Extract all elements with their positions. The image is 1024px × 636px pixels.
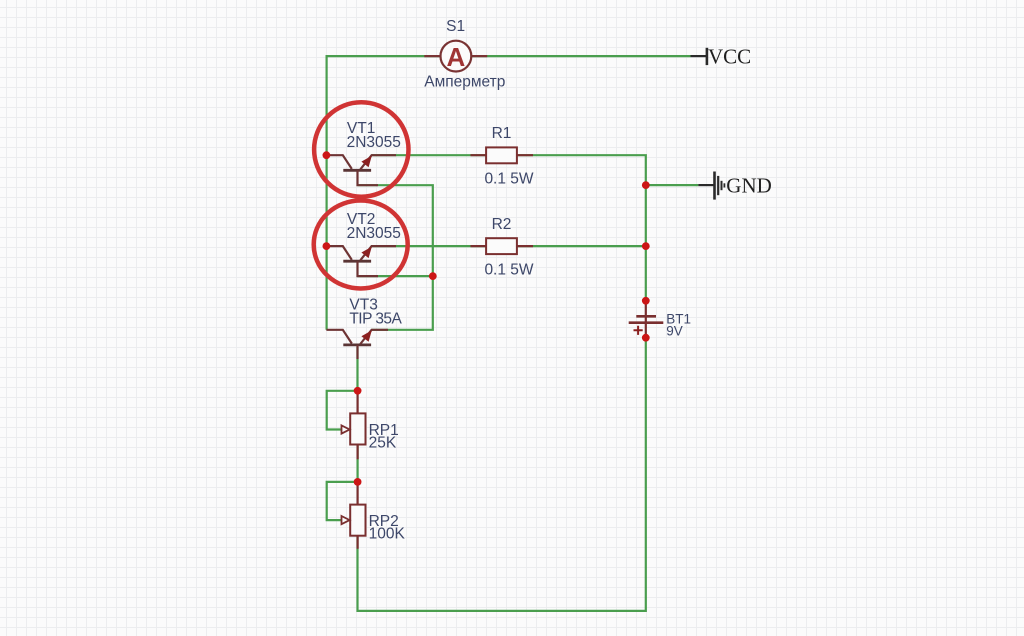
transistor VT1 xyxy=(326,155,396,185)
junction node VT1 collector xyxy=(323,151,331,159)
wire: RP2 bottom, bottom rail, up right rail to battery minus xyxy=(358,338,646,611)
battery BT1 xyxy=(629,301,664,338)
junction node R2 right xyxy=(642,242,650,250)
junction node RP1 top xyxy=(354,387,362,395)
junction node VT2 collector xyxy=(323,242,331,250)
node battery plus pin xyxy=(642,297,650,305)
wire: VT2 base to tie rail xyxy=(358,275,433,277)
resistor R2 xyxy=(471,238,534,254)
potentiometer RP1 xyxy=(342,391,366,459)
resistor R1 xyxy=(471,147,534,163)
wire: GND stub from right rail xyxy=(646,184,699,186)
wire: VT3 base down to RP1 top node xyxy=(356,347,358,391)
svg-text:A: A xyxy=(447,42,466,72)
junction node base tie xyxy=(429,272,437,280)
junction node GND xyxy=(642,181,650,189)
svg-text:GND: GND xyxy=(726,173,772,197)
svg-text:0.1 5W: 0.1 5W xyxy=(484,170,533,187)
ammeter S1 xyxy=(424,41,487,72)
wire: VT1 base / VT2 base tie rail down to VT3 collector xyxy=(358,185,433,330)
svg-text:Амперметр: Амперметр xyxy=(424,74,505,91)
svg-text:25K: 25K xyxy=(369,434,397,451)
GND power symbol xyxy=(698,172,772,200)
svg-text:S1: S1 xyxy=(446,18,465,35)
annotation circle around VT2 xyxy=(314,201,408,289)
transistor VT3 xyxy=(326,330,388,359)
wire: top rail from left rail to VCC, and left vertical rail down to VT3 xyxy=(327,56,691,330)
wire: VT2 emitter to R2 to right rail xyxy=(372,245,646,247)
wire: VT1 emitter to R1 to right rail, down to battery top xyxy=(372,155,646,301)
wire: RP2 wiper bypass loop xyxy=(327,482,358,520)
node battery minus pin xyxy=(642,334,650,342)
svg-text:9V: 9V xyxy=(666,323,683,338)
svg-text:2N3055: 2N3055 xyxy=(347,134,401,151)
VCC power symbol xyxy=(691,44,752,68)
junction node RP2 top xyxy=(354,478,362,486)
svg-text:100K: 100K xyxy=(369,526,406,543)
svg-text:R2: R2 xyxy=(492,216,512,233)
svg-text:TIP 35A: TIP 35A xyxy=(349,310,402,327)
annotation circle around VT1 xyxy=(314,102,408,196)
wire: RP1 bottom to RP2 top node xyxy=(357,445,359,482)
svg-text:VCC: VCC xyxy=(708,44,751,68)
transistor VT2 xyxy=(326,246,396,276)
wire: RP1 wiper bypass loop xyxy=(327,391,358,430)
svg-text:R1: R1 xyxy=(492,125,512,142)
potentiometer RP2 xyxy=(342,482,366,549)
svg-text:0.1 5W: 0.1 5W xyxy=(484,261,533,278)
svg-text:2N3055: 2N3055 xyxy=(347,225,401,242)
